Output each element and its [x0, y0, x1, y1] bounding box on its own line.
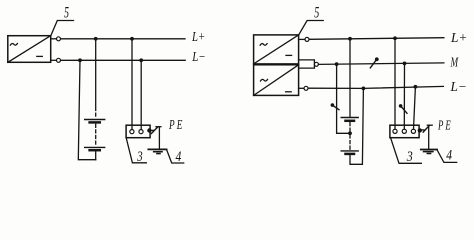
svg-text:L−: L− [191, 49, 205, 64]
strip terminal b (left) [139, 130, 143, 134]
wire L+ (left) [61, 38, 185, 40]
battery midpoint junction dot (right) [348, 131, 352, 135]
label 3 leader (left) [126, 138, 146, 163]
dashed cell omission GB2 (right) [349, 135, 351, 150]
converter 5 (right diagram) upper box [254, 35, 299, 64]
junction dot on L+ to strip (right) [393, 36, 397, 40]
label 4 leader (left) [167, 150, 184, 163]
strip terminal c (right) [411, 129, 415, 133]
svg-text:L+: L+ [191, 29, 205, 44]
battery GB cell 2 plates (left) [85, 147, 105, 150]
AC symbol ~ lower right converter [261, 79, 268, 81]
removable link on midpoint drop (right) [331, 103, 339, 109]
battery GB cell 1 plates (left) [85, 120, 105, 123]
dashed cell omission GB1 (right) [349, 123, 351, 132]
svg-text:4: 4 [176, 149, 182, 165]
PE connection dot (left) [147, 128, 151, 132]
wire battery feed drop (left) [95, 39, 97, 107]
svg-text:3: 3 [406, 149, 413, 165]
terminal circle top (left converter) [51, 37, 61, 41]
PE removable link (right) [422, 125, 433, 132]
AC symbol ~ in left converter [10, 43, 17, 45]
label 3 leader (right) [391, 138, 422, 164]
junction dot on M to strip (right) [403, 62, 407, 66]
AC symbol ~ upper right converter [260, 44, 267, 46]
wire PE to earth (right) [428, 125, 430, 149]
DC symbol - lower right converter [286, 91, 292, 93]
earth electrode symbol (left) [148, 149, 166, 153]
junction dot on L- to strip (right) [414, 85, 418, 89]
terminal strip 3 (left) [126, 125, 150, 138]
wire M (right) [319, 63, 444, 65]
label 4 leader (right) [437, 150, 457, 163]
label 5 leader (right) [299, 21, 323, 35]
wire strip drop from L+ (right) [394, 38, 396, 129]
terminal strip 3 (right) [390, 125, 419, 138]
terminal circle M (right) [314, 62, 318, 66]
wire strip drop from L- (left) [140, 60, 142, 129]
dashed cell omission upper (left battery GB) [95, 108, 97, 119]
wire L- (left) [61, 59, 186, 61]
junction dot on L+ to terminal strip (left) [130, 37, 134, 41]
wire strip drop from L- (right) [414, 87, 416, 129]
wire strip drop from L+ (left) [131, 39, 133, 130]
wire strip drop from M (right) [403, 63, 405, 129]
battery GB1 cell plates (right) [341, 118, 358, 121]
DC symbol - upper right converter [286, 54, 292, 56]
wire battery bottom return to L- (right) [350, 88, 363, 164]
wire PE to earth (left) [158, 127, 160, 149]
svg-text:5: 5 [314, 5, 319, 22]
wire battery bottom stub (left) [95, 151, 97, 160]
svg-text:P E: P E [437, 118, 451, 133]
dashed cell omission middle (left battery GB) [95, 124, 97, 146]
svg-text:L−: L− [450, 79, 467, 94]
label 5 leader (left) [51, 21, 74, 36]
strip terminal a (left) [130, 130, 134, 134]
junction dot on L+ at battery feed (right) [348, 37, 352, 41]
battery GB2 cell plates (right) [341, 151, 358, 154]
junction dot on L+ at battery feed (left) [94, 37, 98, 41]
terminal circle L+ (right) [299, 37, 309, 41]
terminal circle L- (right) [299, 86, 308, 90]
wire L- (right) [308, 86, 443, 88]
svg-text:P E: P E [168, 117, 183, 132]
midpoint bracket joining converters (right) [299, 60, 315, 68]
converter 5 (left diagram) box [8, 36, 51, 63]
wire battery midpoint drop (right) [337, 64, 350, 133]
junction dot on L- at battery return (right) [362, 87, 366, 91]
DC symbol - in left converter [37, 55, 43, 57]
junction dot on L- to terminal strip (left) [139, 58, 143, 62]
PE connection dot (right) [418, 128, 422, 132]
removable link on M strip drop (right) [399, 104, 407, 113]
earth electrode symbol (right) [421, 150, 437, 154]
terminal circle bottom (left converter) [51, 58, 61, 62]
removable link on M wire [370, 57, 378, 68]
wire battery feed drop (right) [349, 39, 351, 117]
wire battery return drop (left) [78, 60, 95, 159]
svg-text:L+: L+ [450, 30, 467, 45]
junction dot on L- at battery return (left) [78, 58, 82, 62]
svg-text:M: M [450, 55, 459, 70]
junction dot on M for battery midpoint (right) [335, 62, 339, 66]
svg-text:5: 5 [64, 5, 69, 22]
strip terminal a (right) [393, 129, 397, 133]
svg-text:3: 3 [136, 149, 142, 165]
wire L+ (right) [309, 38, 444, 40]
PE removable link (left) [151, 127, 161, 134]
converter lower box (right diagram) [254, 65, 299, 96]
svg-text:4: 4 [446, 147, 452, 163]
strip terminal b (right) [402, 129, 406, 133]
